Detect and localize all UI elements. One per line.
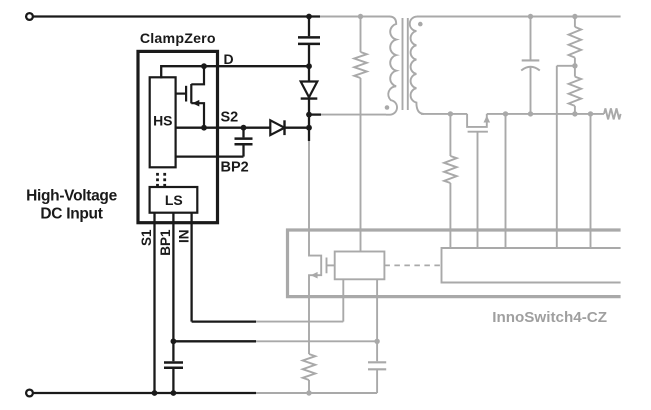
node S2-diode/drain <box>306 125 312 131</box>
wire clamp to primary (gray) <box>320 114 386 116</box>
svg-text:InnoSwitch4-CZ: InnoSwitch4-CZ <box>492 309 607 326</box>
wire drain feed (gray) <box>308 140 310 230</box>
wire secondary return rail (right) <box>487 113 604 115</box>
junction BP1/BP-net <box>171 338 177 344</box>
wire top rail (gray segment to transformer) <box>318 16 390 18</box>
wire secondary top rail <box>417 16 621 18</box>
node clamp/primary-winding <box>306 112 312 118</box>
transformer T1 secondary winding <box>410 17 424 114</box>
high-side MOSFET M1 <box>191 66 204 128</box>
junction top-rail/output-cap <box>528 14 533 19</box>
snubber resistor <box>360 17 362 53</box>
clamp capacitor <box>308 17 310 37</box>
LS box <box>150 187 198 213</box>
wire sense to controller <box>590 114 592 248</box>
wire BP2 <box>176 155 244 157</box>
junction BP1/bottom-rail <box>171 390 177 396</box>
wire BP1 net (black) <box>173 340 256 342</box>
input terminal + <box>26 13 33 20</box>
pin S1 wire <box>153 213 155 393</box>
svg-text:BP1: BP1 <box>158 229 173 256</box>
feedback resistor <box>449 114 451 156</box>
svg-text:BP2: BP2 <box>221 160 249 176</box>
wire secondary return rail (left) <box>421 113 467 115</box>
junction return/sense <box>588 111 593 116</box>
wire IN net (gray) <box>255 321 343 323</box>
wire pin D <box>161 65 309 67</box>
controller box (inside InnoSwitch) <box>442 248 621 283</box>
junction top-rail/clamp-cap <box>306 14 312 20</box>
wire S2 <box>176 127 270 129</box>
svg-text:DC Input: DC Input <box>40 205 102 222</box>
junction divider tap <box>572 63 577 68</box>
output capacitor (polarized) <box>530 17 532 60</box>
junction sense/bottom rail <box>306 390 311 395</box>
transformer T1 primary winding <box>383 17 397 115</box>
pin BP1 wire <box>172 213 174 362</box>
junction BP net <box>374 339 379 344</box>
junction return/pin <box>503 111 508 116</box>
wire top rail (black) <box>33 15 320 17</box>
junction top-rail/divider <box>572 14 577 19</box>
wire divider tap to controller <box>557 65 575 67</box>
svg-text:LS: LS <box>165 192 183 208</box>
svg-text:D: D <box>224 51 234 67</box>
pin IN wire <box>190 213 192 322</box>
junction return/output-cap <box>528 111 533 116</box>
divider resistor lower <box>574 66 576 77</box>
blocking diode (S2) <box>270 120 284 135</box>
junction S1/bottom-rail <box>152 390 158 396</box>
BP2 capacitor <box>242 128 244 138</box>
svg-text:HS: HS <box>153 113 172 129</box>
primary phase dot <box>385 105 390 110</box>
output sense resistor (cut at edge) <box>604 108 621 119</box>
svg-text:ClampZero: ClampZero <box>140 31 216 47</box>
wire BP1 net (gray) <box>255 340 377 342</box>
junction S2/BP2-cap <box>241 125 247 131</box>
InnoSwitch4-CZ block outline <box>288 230 621 297</box>
wire bottom rail (black) <box>33 392 256 394</box>
primary FET M2 (inside InnoSwitch) <box>309 230 321 354</box>
svg-text:IN: IN <box>176 230 191 244</box>
input terminal - <box>26 390 33 397</box>
BP bypass branch <box>376 279 378 361</box>
driver box (inside InnoSwitch) <box>335 252 385 280</box>
junction S2/M1-source <box>201 125 207 131</box>
svg-text:High-Voltage: High-Voltage <box>26 187 118 204</box>
node D/clamp junction <box>306 63 312 69</box>
SR FET Q1 <box>467 114 487 127</box>
transformer core <box>402 18 404 110</box>
junction return/feedback-resistor <box>448 111 453 116</box>
dotted link HS-LS <box>156 173 159 176</box>
BP1 capacitor <box>164 361 183 364</box>
wire pin to controller (505.5) <box>505 114 507 248</box>
secondary phase dot <box>418 22 423 27</box>
junction node top-rail/snubber <box>358 14 363 19</box>
ClampZero block outline <box>138 51 218 222</box>
clamp diode <box>308 66 310 81</box>
svg-text:S1: S1 <box>139 229 154 246</box>
dashed control link <box>384 264 441 266</box>
wire bottom rail (gray) <box>255 392 377 394</box>
junction return/divider <box>572 111 577 116</box>
junction D-wire/M1-drain <box>201 63 207 69</box>
current sense resistor <box>303 354 316 380</box>
divider resistor upper <box>574 17 576 27</box>
HS box <box>150 77 176 167</box>
svg-text:S2: S2 <box>221 110 239 126</box>
